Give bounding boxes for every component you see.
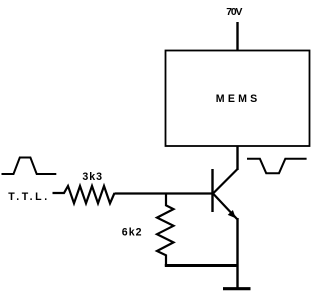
- MEMS block: [166, 51, 310, 147]
- input waveform (positive pulse): [2, 158, 57, 175]
- resistor R1 3k3: [53, 186, 115, 203]
- resistor R2 6k2: [157, 194, 174, 266]
- wire 6k2 bottom to emitter line: [165, 264, 238, 267]
- base bar: [211, 169, 213, 212]
- output waveform (negative pulse): [247, 159, 307, 173]
- emitter diagonal: [213, 194, 237, 220]
- emitter arrowhead: [228, 210, 236, 218]
- svg-text:3k3: 3k3: [82, 171, 103, 183]
- ground: [223, 287, 251, 290]
- svg-text:MEMS: MEMS: [216, 93, 261, 105]
- wire 3k3 to transistor base: [115, 192, 213, 194]
- transistor Q1 (NPN): [213, 169, 238, 219]
- wire MEMS box to collector: [236, 146, 238, 170]
- svg-text:6k2: 6k2: [122, 226, 143, 238]
- svg-text:70V: 70V: [226, 7, 242, 18]
- collector diagonal: [213, 169, 238, 194]
- wire 70V supply to MEMS box: [236, 22, 238, 50]
- wire emitter down to ground: [236, 218, 238, 289]
- svg-text:T.T.L.: T.T.L.: [8, 191, 50, 203]
